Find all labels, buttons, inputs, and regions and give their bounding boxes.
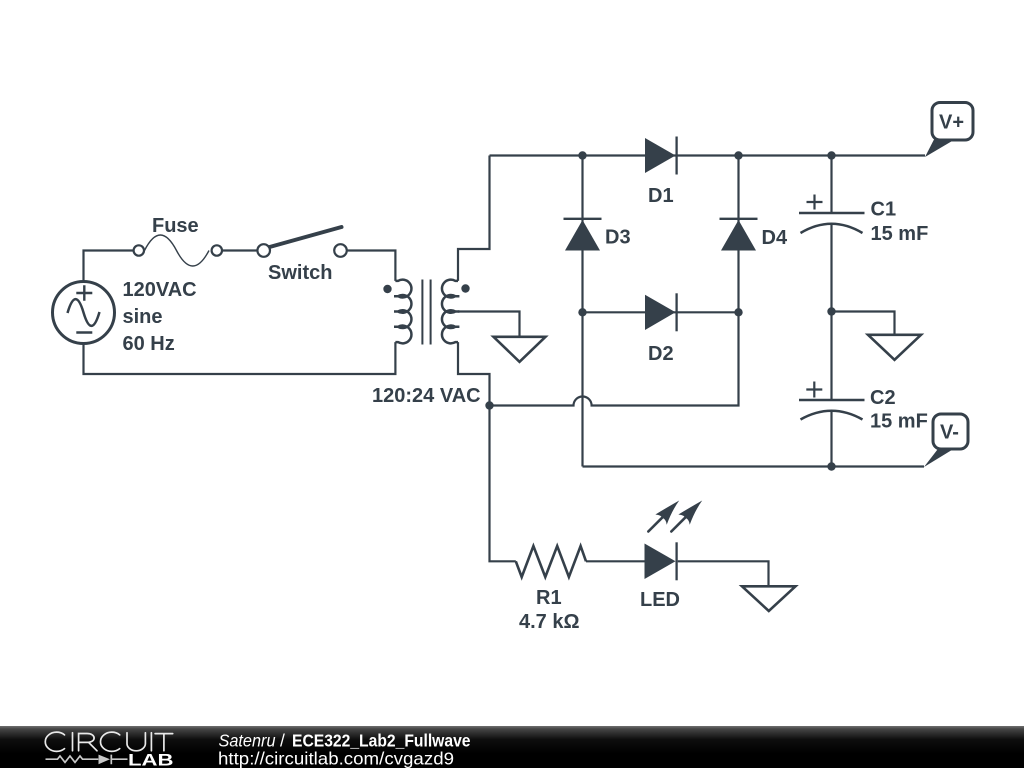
transformer T1 primary coil bbox=[394, 280, 411, 344]
wire top rail bbox=[490, 154, 926, 156]
wire bbox=[347, 251, 395, 281]
node top rail / D4 bbox=[734, 151, 742, 159]
svg-text:15 mF: 15 mF bbox=[870, 411, 928, 433]
wire R1 to LED bbox=[586, 560, 645, 562]
wire bbox=[84, 251, 137, 282]
diode D1 bbox=[645, 137, 677, 175]
wire D3 branch bbox=[581, 156, 583, 313]
wire D3 branch to bottom rail bbox=[581, 312, 583, 466]
node D2 rail right bbox=[734, 308, 742, 316]
diode D2 bbox=[645, 293, 677, 331]
svg-text:V-: V- bbox=[940, 422, 959, 444]
svg-text:Fuse: Fuse bbox=[152, 215, 199, 237]
ground (center tap) bbox=[494, 337, 546, 362]
svg-text:R1: R1 bbox=[536, 587, 562, 609]
ground (LED) bbox=[742, 586, 796, 611]
switch SW1 bbox=[257, 227, 346, 257]
wire secondary top lead bbox=[458, 156, 490, 281]
node secondary bottom bbox=[485, 401, 493, 409]
logo CIRCUIT bbox=[45, 732, 172, 751]
logo resistor-diode squiggle bbox=[46, 755, 128, 765]
fuse F1 bbox=[134, 235, 222, 266]
capacitor C2 bbox=[799, 312, 865, 467]
svg-text:LAB: LAB bbox=[128, 751, 174, 768]
node D2 rail left bbox=[578, 308, 586, 316]
wire D2 rail bbox=[583, 311, 739, 313]
svg-text:4.7 kΩ: 4.7 kΩ bbox=[519, 611, 580, 633]
voltage source V1 bbox=[53, 282, 115, 344]
wire midpoint to ground bbox=[832, 312, 895, 335]
transformer core bbox=[422, 280, 430, 345]
wire LED branch vertical bbox=[490, 406, 516, 562]
svg-text:120:24 VAC: 120:24 VAC bbox=[372, 385, 481, 407]
node top rail / C1 bbox=[827, 151, 835, 159]
svg-text:ECE322_Lab2_Fullwave: ECE322_Lab2_Fullwave bbox=[292, 731, 471, 751]
LED D5 bbox=[645, 501, 703, 581]
node C1/C2 midpoint bbox=[827, 307, 835, 315]
flag V- bbox=[924, 414, 968, 467]
node bottom rail / C2 bbox=[827, 462, 835, 470]
svg-text:LED: LED bbox=[640, 589, 680, 611]
svg-text:15 mF: 15 mF bbox=[871, 223, 929, 245]
svg-text:Switch: Switch bbox=[268, 262, 332, 284]
svg-text:Satenru: Satenru bbox=[219, 731, 276, 751]
svg-text:D3: D3 bbox=[605, 227, 631, 249]
diode D4 bbox=[720, 219, 758, 251]
wire bottom rail bbox=[583, 465, 925, 467]
transformer secondary phase dot bbox=[461, 284, 469, 292]
wire bbox=[222, 249, 257, 251]
transformer primary phase dot bbox=[383, 285, 391, 293]
svg-text:/: / bbox=[280, 731, 285, 751]
svg-text:C1: C1 bbox=[871, 199, 897, 221]
svg-text:http://circuitlab.com/cvgazd9: http://circuitlab.com/cvgazd9 bbox=[218, 749, 454, 768]
capacitor C1 bbox=[799, 156, 865, 312]
ground (capacitor midpoint) bbox=[868, 335, 921, 360]
node top rail / D3 bbox=[578, 151, 586, 159]
diode D3 bbox=[564, 219, 602, 251]
wire bbox=[84, 342, 396, 374]
svg-text:D2: D2 bbox=[648, 343, 674, 365]
flag V+ bbox=[925, 103, 973, 158]
svg-text:D4: D4 bbox=[762, 227, 788, 249]
wire secondary bottom lead bbox=[458, 342, 490, 405]
resistor R1 bbox=[516, 546, 586, 577]
transformer T1 secondary coil bbox=[442, 280, 459, 344]
svg-text:60 Hz: 60 Hz bbox=[123, 333, 175, 355]
svg-text:V+: V+ bbox=[939, 112, 964, 134]
svg-text:D1: D1 bbox=[648, 185, 674, 207]
wire from D2/D4 node down and left with hop bbox=[490, 312, 739, 405]
wire LED to ground bbox=[678, 561, 769, 586]
svg-text:sine: sine bbox=[123, 306, 163, 328]
wire center tap bbox=[458, 312, 520, 337]
svg-text:120VAC: 120VAC bbox=[123, 279, 197, 301]
svg-text:C2: C2 bbox=[870, 387, 896, 409]
wire D4 branch bbox=[737, 156, 739, 313]
